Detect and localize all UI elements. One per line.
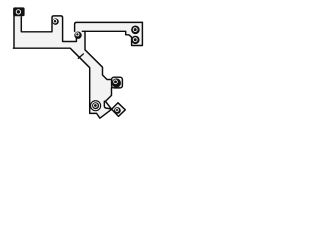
wire trace1 right wall + inner edge + pad B outline + trace2 right wall + edge to pad C hook <box>21 16 76 42</box>
pad D2 via <box>131 36 139 44</box>
pad F via <box>92 102 99 109</box>
pad D1 via <box>131 26 140 35</box>
wire notch apex to pad G diamond <box>106 102 112 110</box>
pad A <box>13 7 25 16</box>
wire below pad E down to notch apex <box>105 88 111 102</box>
copper pour fill <box>14 14 142 118</box>
pad G via <box>114 107 121 114</box>
pad F outline circle <box>91 101 101 111</box>
pad C via <box>74 32 81 39</box>
pad B via <box>52 18 59 25</box>
pad E box outline <box>112 77 123 88</box>
pad E via <box>112 78 121 87</box>
wire bottom edge + diagonal + band left wall + lobe F outline + foot <box>13 48 111 118</box>
node trace length tick <box>78 54 83 59</box>
wire top-right trace bottom edge + step + pad block outline <box>82 22 142 45</box>
wire trace1 left wall <box>13 16 15 48</box>
wire branch right wall + jog + ledge to pad E <box>85 31 113 79</box>
PCB trace net drawing <box>0 0 150 128</box>
wire notch left side <box>104 101 111 109</box>
wire top-right trace top edge + left end <box>75 22 143 31</box>
pad G diamond outline <box>112 103 126 117</box>
